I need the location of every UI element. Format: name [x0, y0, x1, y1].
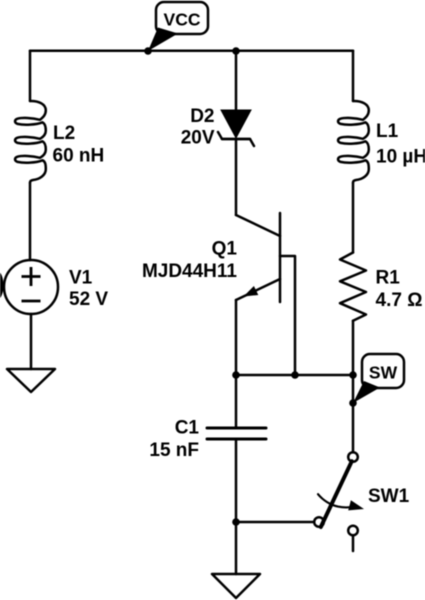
svg-text:10 µH: 10 µH [376, 147, 425, 168]
lever [321, 461, 352, 527]
wire left rail mid [29, 183, 32, 260]
node VCC label bubble [148, 2, 208, 51]
junction dot SW tap [349, 399, 357, 407]
svg-text:20V: 20V [181, 128, 215, 149]
svg-text:Q1: Q1 [212, 239, 238, 260]
label Q1 value [142, 239, 237, 283]
svg-text:R1: R1 [376, 267, 401, 288]
wire to bottom ground [235, 522, 238, 574]
inductor L1 coil [338, 101, 369, 183]
collector lead [236, 215, 280, 236]
common terminal circle [314, 517, 324, 527]
voltage source V1 [4, 260, 58, 314]
transistor Q1 [236, 213, 295, 375]
wire right rail upper [352, 51, 355, 101]
node SW label bubble [353, 354, 404, 403]
capacitor C1 [207, 428, 266, 439]
base bar [279, 213, 282, 302]
wire capacitor down [235, 439, 238, 522]
svg-text:15 nF: 15 nF [149, 440, 199, 461]
wire left rail upper [29, 51, 32, 101]
inductor L2 coil [15, 101, 46, 183]
wire L1 to R1 [352, 183, 355, 253]
actuator arrowhead [348, 500, 364, 510]
wire junction row [236, 374, 353, 377]
top terminal circle [348, 452, 358, 462]
svg-text:MJD44H11: MJD44H11 [142, 261, 237, 282]
emitter lead [236, 279, 280, 300]
label L1 value [376, 121, 425, 168]
label D2 value [181, 106, 215, 149]
wire V1 to ground [30, 314, 33, 369]
svg-text:C1: C1 [175, 418, 200, 439]
junction dot VCC tap [144, 47, 152, 55]
ground bottom [212, 574, 260, 598]
wire bottom row to switch [236, 521, 314, 524]
emitter arrow [244, 286, 259, 297]
svg-text:4.7 Ω: 4.7 Ω [376, 290, 423, 311]
wire emitter down [235, 300, 238, 375]
svg-text:V1: V1 [69, 268, 93, 289]
zener diode D2 [218, 110, 254, 146]
junction dot emitter node [232, 371, 240, 379]
wire top rail from left corner to right corner [30, 49, 353, 52]
wire middle rail to diode [235, 51, 238, 110]
junction dot base node [291, 371, 299, 379]
clipped artifact at left edge [0, 271, 4, 299]
label L2 value [53, 123, 105, 167]
label R1 value [376, 267, 423, 311]
svg-text:VCC: VCC [164, 10, 201, 30]
svg-text:52 V: 52 V [69, 289, 108, 310]
svg-text:L1: L1 [376, 121, 399, 142]
label V1 value [69, 268, 108, 311]
svg-text:60 nH: 60 nH [53, 146, 105, 167]
svg-text:SW1: SW1 [368, 486, 410, 507]
label C1 value [149, 418, 199, 461]
junction dot SW node row [349, 371, 357, 379]
junction dot top middle [232, 47, 240, 55]
lower throw terminal circle [348, 526, 358, 536]
base lead [280, 256, 295, 375]
resistor R1 [340, 253, 366, 321]
actuator arc [318, 494, 351, 507]
svg-text:D2: D2 [190, 106, 214, 127]
svg-text:SW: SW [369, 363, 398, 383]
wire R1 to switch [352, 321, 355, 453]
svg-text:L2: L2 [53, 123, 75, 144]
wire to capacitor [235, 375, 238, 428]
switch SW1 [314, 452, 364, 551]
junction dot bottom node [232, 518, 240, 526]
stub below lower throw [352, 535, 355, 551]
ground left [7, 369, 55, 392]
wire diode to transistor collector [235, 139, 238, 215]
